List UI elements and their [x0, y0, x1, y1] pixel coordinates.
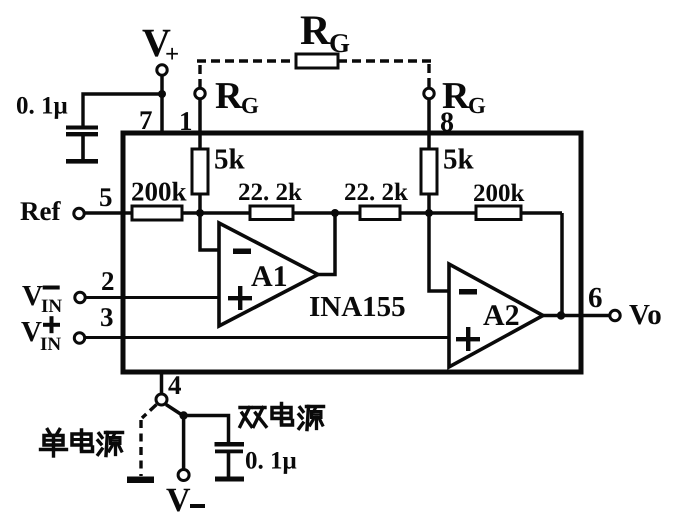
wire pin 8 — [427, 99, 431, 151]
wire pin 1 — [198, 99, 202, 151]
resistor RG — [296, 54, 338, 68]
resistor 5k left — [192, 149, 208, 194]
svg-text:+: + — [165, 41, 179, 68]
node output — [557, 311, 565, 319]
resistor 5k right — [421, 149, 437, 194]
label RG left — [215, 75, 259, 118]
svg-text:G: G — [468, 93, 486, 118]
wire to bypass capacitor — [83, 94, 162, 127]
svg-text:200k: 200k — [131, 177, 187, 207]
label VIN- — [22, 280, 62, 317]
dashed wire RG left vertical — [198, 61, 201, 88]
svg-text:G: G — [329, 28, 350, 58]
dashed wire RG horizontal right — [338, 59, 432, 62]
dashed wire RG horizontal left — [197, 59, 296, 62]
svg-text:22. 2k: 22. 2k — [344, 179, 408, 206]
svg-text:22. 2k: 22. 2k — [238, 179, 302, 206]
node pin8 column — [425, 209, 433, 217]
wire A1 inverting input — [200, 213, 219, 250]
svg-text:G: G — [241, 93, 259, 118]
wire node to C2 — [184, 416, 229, 443]
label shuang dian yuan — [240, 404, 324, 430]
wire node to V- — [182, 416, 186, 470]
label RG top — [300, 8, 350, 58]
wire 22.2k B to 200k B — [400, 211, 476, 215]
capacitor C2 0.1u — [215, 442, 245, 477]
label dan dian yuan — [41, 430, 123, 457]
svg-text:5k: 5k — [443, 144, 475, 176]
svg-text:V: V — [166, 482, 191, 519]
wire pin 2 — [86, 296, 220, 299]
op-amp A1 — [219, 223, 318, 326]
junction bypass node — [158, 90, 166, 98]
dashed wire single supply — [141, 405, 157, 477]
svg-text:3: 3 — [100, 302, 114, 332]
svg-text:R: R — [300, 8, 331, 54]
svg-text:A2: A2 — [483, 299, 520, 332]
svg-text:Vo: Vo — [629, 299, 662, 331]
wire A2 inverting input — [429, 213, 449, 291]
svg-text:200k: 200k — [473, 180, 525, 207]
terminal RG left pin1 — [195, 88, 205, 98]
node minus supply — [179, 411, 187, 419]
svg-text:R: R — [215, 75, 243, 117]
svg-text:4: 4 — [168, 370, 182, 400]
node B — [331, 209, 339, 217]
wire pin 3 — [85, 336, 449, 339]
wire pin4 to minus node — [166, 405, 184, 417]
resistor 22.2k A — [250, 206, 293, 220]
capacitor C1 0.1u — [66, 126, 98, 161]
wire pin 4 — [160, 371, 164, 394]
svg-text:0. 1μ: 0. 1μ — [245, 448, 297, 475]
ground single supply — [127, 477, 154, 484]
label VIN+ — [21, 316, 61, 355]
svg-text:0. 1μ: 0. 1μ — [16, 93, 68, 120]
label RG right — [442, 75, 486, 118]
terminal pin 4 — [156, 394, 167, 405]
feedback wire down — [560, 213, 564, 316]
svg-text:Ref: Ref — [20, 196, 61, 226]
terminal V+ — [157, 65, 167, 75]
terminal Ref pin5 — [74, 208, 84, 218]
wire A2 output — [543, 314, 610, 318]
terminal V- — [178, 470, 189, 481]
svg-text:5k: 5k — [214, 144, 246, 176]
svg-text:IN: IN — [41, 296, 62, 317]
resistor 200k B — [476, 206, 521, 220]
label V+ — [142, 20, 179, 68]
svg-text:V: V — [21, 316, 42, 348]
IC boundary box — [123, 133, 581, 372]
wire Ref to 200k — [85, 211, 133, 215]
svg-text:IN: IN — [40, 334, 61, 355]
terminal pin 3 — [74, 333, 84, 343]
wire 5k right bottom — [427, 195, 431, 213]
terminal Vo pin6 — [610, 310, 620, 320]
svg-text:6: 6 — [588, 282, 603, 314]
wire 200k A to 22.2k A — [182, 211, 250, 215]
ground C2 — [215, 477, 244, 482]
wire 200k B to feedback — [521, 211, 562, 215]
resistor 200k A — [132, 206, 182, 220]
terminal RG right pin8 — [424, 88, 434, 98]
ground C1 — [66, 159, 98, 164]
svg-text:INA155: INA155 — [309, 291, 406, 323]
wire 22.2k A to 22.2k B — [293, 211, 360, 215]
svg-text:A1: A1 — [251, 260, 288, 293]
svg-text:2: 2 — [101, 266, 115, 296]
label V- — [166, 482, 205, 519]
node pin1 column — [196, 209, 204, 217]
svg-text:5: 5 — [99, 182, 113, 212]
op-amp A2 — [449, 264, 543, 367]
wire A1 output — [318, 213, 335, 275]
resistor 22.2k B — [360, 206, 400, 220]
terminal pin 2 — [75, 292, 85, 302]
svg-text:V: V — [22, 280, 43, 312]
wire 5k left bottom — [198, 195, 202, 213]
dashed wire RG right vertical — [427, 64, 430, 88]
wire V+ to pin 7 — [160, 76, 164, 134]
